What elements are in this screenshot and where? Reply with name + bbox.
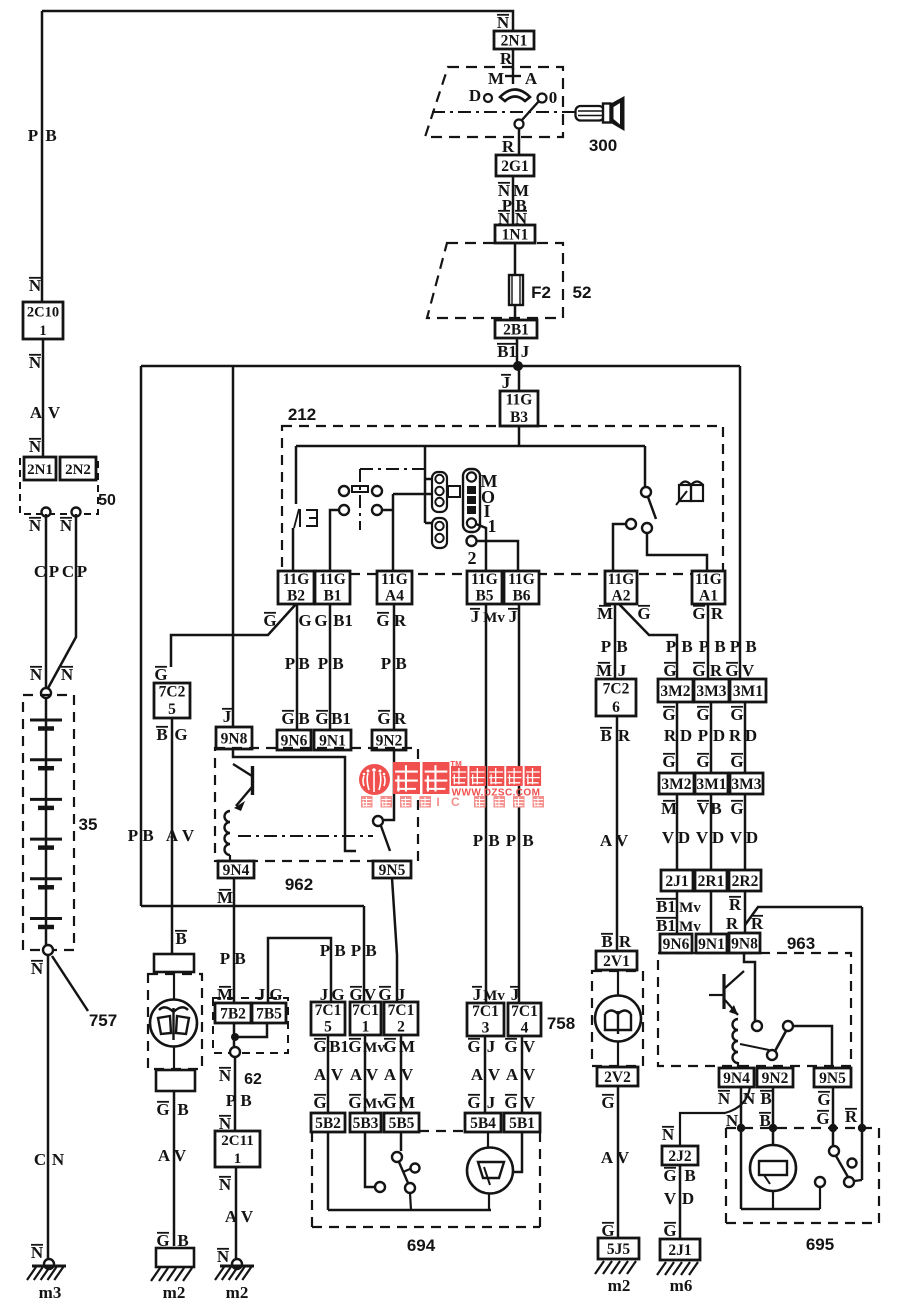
svg-text:Mv: Mv [363, 1040, 385, 1056]
svg-text:Mv: Mv [483, 988, 505, 1004]
svg-text:R: R [729, 726, 742, 745]
contact circle 962 [373, 816, 383, 826]
connector 2R2 [729, 870, 761, 891]
svg-text:B1: B1 [323, 587, 341, 604]
svg-text:J: J [511, 985, 520, 1004]
svg-text:9N2: 9N2 [762, 1070, 789, 1087]
relay 7C2-6 [596, 679, 636, 716]
svg-text:3M2: 3M2 [660, 683, 690, 700]
svg-text:N: N [219, 1175, 232, 1194]
svg-text:R: R [729, 895, 742, 914]
wire 2N2 slant to battery node [47, 514, 76, 690]
ignition switch crescent [500, 90, 530, 102]
unit 695 dashed box [726, 1127, 879, 1129]
connector 11G B2 [278, 571, 314, 604]
svg-text:V: V [697, 799, 710, 818]
svg-text:A: A [384, 1065, 397, 1084]
connector 9N4 (962) [218, 861, 254, 878]
wire lower contact to 11G B1 [330, 510, 339, 571]
svg-text:J: J [473, 985, 482, 1004]
wire 2N1 to battery node [45, 514, 48, 690]
svg-text:P: P [506, 831, 516, 850]
wire 9N8 into 963 [744, 953, 755, 1021]
blower motor circle [617, 970, 619, 996]
connector 5B4 [465, 1113, 501, 1132]
svg-text:N: N [29, 276, 42, 295]
svg-text:V: V [523, 1065, 536, 1084]
ignition key icon 300 [576, 106, 605, 121]
wire 9N5 to switch 695 [832, 1087, 835, 1146]
svg-text:J: J [618, 661, 627, 680]
svg-text:A: A [350, 1065, 363, 1084]
wire right switch drop [644, 446, 647, 487]
contact pair upper with bridge [339, 486, 349, 496]
connector 2R1 [695, 870, 727, 891]
svg-text:P: P [77, 562, 87, 581]
wiper motor M1 circle [173, 972, 175, 1000]
svg-text:B: B [177, 1100, 188, 1119]
relay contact circle A 963 [752, 1021, 762, 1031]
svg-text:P: P [730, 637, 740, 656]
wire 212 internal bus [296, 445, 645, 448]
connector 7B2 [215, 1003, 251, 1023]
connector 11G A4 [377, 571, 412, 604]
svg-text:V: V [241, 1207, 254, 1226]
svg-text:11G: 11G [508, 571, 535, 588]
svg-text:V: V [48, 403, 61, 422]
svg-text:R: R [726, 914, 739, 933]
svg-text:D: D [746, 828, 758, 847]
svg-text:N: N [29, 437, 42, 456]
relay coil 962 [225, 811, 230, 855]
svg-text:M: M [488, 69, 504, 88]
unit 962 dashed box [215, 748, 418, 861]
battery 35 dashed box [23, 695, 74, 950]
ignition contact 0 [538, 94, 547, 103]
svg-text:2J1: 2J1 [668, 1242, 691, 1259]
ignition switch dashed parallelogram [425, 67, 563, 137]
connector 5B2 [311, 1113, 345, 1132]
svg-text:G: G [504, 1093, 517, 1112]
connector 2N1 (ignition) [494, 31, 534, 49]
connector 7C1-3 [467, 1003, 504, 1036]
strip B lower circle [467, 536, 477, 546]
wires 3M upper to lower [676, 702, 679, 773]
svg-text:B: B [142, 826, 153, 845]
svg-text:R: R [845, 1107, 858, 1126]
connector 11G A1 [692, 571, 725, 604]
svg-text:G: G [348, 1093, 361, 1112]
svg-text:B: B [298, 709, 309, 728]
svg-text:D: D [712, 828, 724, 847]
rear washer pump [750, 1145, 796, 1191]
svg-text:9N4: 9N4 [223, 862, 250, 879]
svg-text:2B1: 2B1 [503, 322, 529, 339]
svg-text:9N5: 9N5 [819, 1070, 846, 1087]
wire 11G A4 to 9N2 [393, 604, 396, 730]
contact circle 695 common [815, 1177, 825, 1187]
wire 694 common [328, 1209, 491, 1212]
svg-text:V: V [730, 828, 743, 847]
svg-text:B1: B1 [656, 916, 676, 935]
connector 11G B1 [315, 571, 350, 604]
svg-text:G: G [817, 1090, 830, 1109]
wire 11G A1 to 3M3 [707, 604, 710, 679]
wire 9N2 to rear pump [772, 1087, 775, 1147]
blower icon [605, 1011, 631, 1035]
unit 62 dashed box [213, 998, 288, 1053]
wire 9N2 to 962 contact [384, 750, 394, 820]
ground m2 (5J5) [595, 1261, 604, 1274]
svg-text:V: V [523, 1093, 536, 1112]
svg-text:G: G [663, 1221, 676, 1240]
ground block m2 (motor) [156, 1248, 194, 1267]
svg-text:m2: m2 [226, 1283, 249, 1302]
transistor Q 963 [722, 974, 725, 1009]
wire bus to 11G B3 [518, 366, 521, 391]
wiper motor top cap [154, 954, 194, 972]
svg-text:300: 300 [589, 136, 617, 155]
svg-text:Mv: Mv [679, 900, 701, 916]
wire strip to 11G B5 [476, 524, 486, 571]
wire 11G B6 to 7C1-4 [518, 604, 521, 1003]
svg-text:7B5: 7B5 [256, 1006, 282, 1023]
svg-text:N: N [52, 1150, 65, 1169]
svg-text:M: M [661, 799, 677, 818]
svg-text:9N6: 9N6 [663, 936, 690, 953]
wire left battery feed vertical [41, 11, 44, 302]
wire 11G A2 to 7C2-6 [614, 604, 617, 679]
svg-text:G: G [467, 1093, 480, 1112]
svg-text:V: V [742, 661, 755, 680]
wire 62 to 2C11 [234, 1057, 237, 1131]
svg-text:7C1: 7C1 [315, 1002, 342, 1019]
wire 1N1 to 2B1 [514, 243, 517, 320]
svg-text:G: G [281, 709, 294, 728]
svg-text:G: G [696, 705, 709, 724]
svg-text:Mv: Mv [363, 1096, 385, 1112]
wire contact to 9N5 [793, 1026, 832, 1068]
front washer pump [487, 1132, 489, 1147]
svg-text:B: B [684, 1166, 695, 1185]
svg-text:m2: m2 [608, 1276, 631, 1295]
svg-text:2R2: 2R2 [732, 873, 759, 890]
wire battery to ground m3 [47, 955, 50, 1262]
connector 9N8 [216, 727, 252, 749]
svg-text:G: G [730, 705, 743, 724]
svg-text:1: 1 [488, 516, 497, 536]
ignition dash-dot axis [432, 111, 576, 113]
svg-text:J: J [257, 985, 266, 1004]
svg-text:N: N [61, 665, 74, 684]
switch 212 contacts [626, 519, 636, 529]
svg-text:2: 2 [468, 548, 477, 568]
svg-text:3M3: 3M3 [696, 683, 726, 700]
svg-text:D: D [682, 1189, 694, 1208]
svg-text:9N5: 9N5 [379, 862, 406, 879]
connector 2G1 [496, 155, 534, 176]
svg-text:A: A [600, 831, 613, 850]
svg-text:A: A [506, 1065, 519, 1084]
terminal circle 2N1 [42, 508, 51, 517]
svg-text:52: 52 [573, 283, 592, 302]
lamp symbol [299, 509, 301, 527]
connector 3M2 upper [658, 679, 693, 702]
svg-text:A: A [158, 1146, 171, 1165]
svg-text:212: 212 [288, 405, 316, 424]
wire 9N4-N into 695 [740, 1087, 743, 1209]
svg-text:G: G [376, 611, 389, 630]
svg-text:5: 5 [324, 1018, 332, 1035]
svg-text:V: V [182, 826, 195, 845]
svg-text:11G: 11G [283, 571, 310, 588]
svg-text:J: J [521, 342, 530, 361]
svg-text:B: B [234, 949, 245, 968]
svg-text:7C1: 7C1 [388, 1002, 415, 1019]
svg-text:P: P [698, 726, 708, 745]
coil link 963 [740, 1044, 769, 1050]
svg-text:11G: 11G [381, 571, 408, 588]
svg-text:N: N [60, 516, 73, 535]
svg-text:7C2: 7C2 [159, 684, 186, 701]
svg-text:P: P [318, 654, 328, 673]
svg-text:758: 758 [547, 1014, 575, 1033]
svg-text:I C: I C [436, 795, 463, 809]
svg-text:M: M [596, 661, 612, 680]
wiper motor bottom cap [156, 1070, 195, 1091]
svg-text:N: N [29, 353, 42, 372]
wire contact to 11G A1 [647, 533, 707, 571]
connector 50 dashed outline [20, 458, 98, 514]
svg-text:G: G [156, 1100, 169, 1119]
connector 9N1 [314, 730, 351, 750]
bus wire horizontal [141, 365, 740, 368]
svg-text:J: J [223, 707, 232, 726]
svg-text:m6: m6 [670, 1276, 693, 1295]
svg-text:V: V [523, 1037, 536, 1056]
svg-text:1: 1 [39, 323, 46, 339]
svg-text:V: V [331, 1065, 344, 1084]
svg-text:B: B [395, 654, 406, 673]
svg-text:2C11: 2C11 [221, 1133, 254, 1149]
svg-text:3M1: 3M1 [696, 776, 726, 793]
svg-text:A2: A2 [612, 587, 631, 604]
fuse F2 [509, 275, 523, 305]
svg-text:A: A [314, 1065, 327, 1084]
svg-text:J: J [502, 373, 511, 392]
connector 5B1 [504, 1113, 540, 1132]
svg-text:G: G [314, 611, 327, 630]
svg-text:5J5: 5J5 [607, 1241, 631, 1258]
svg-text:B: B [488, 831, 499, 850]
svg-text:11G: 11G [608, 571, 635, 588]
svg-text:D: D [680, 726, 692, 745]
connector 9N2 [372, 730, 406, 750]
svg-text:R: R [664, 726, 677, 745]
node battery top [41, 688, 51, 698]
wire 9N5 to 7C1-2 [392, 878, 397, 1002]
connector 5B3 [350, 1113, 381, 1132]
connector 2V1 [596, 951, 637, 970]
wires 7C1 to 5B row [327, 1035, 330, 1113]
connector 7C1-5 [311, 1002, 345, 1035]
wire 7C2-5 to wiper motor [171, 718, 174, 954]
svg-text:R: R [394, 611, 407, 630]
connector 3M2 lower [659, 773, 694, 794]
watermark logo [359, 764, 390, 795]
svg-text:R: R [710, 661, 723, 680]
svg-text:35: 35 [79, 815, 98, 834]
svg-text:A: A [225, 1207, 238, 1226]
connector 2B1 [495, 320, 537, 338]
svg-text:6: 6 [612, 699, 620, 716]
svg-text:B: B [45, 126, 56, 145]
svg-text:9N8: 9N8 [221, 731, 248, 748]
svg-text:V: V [664, 1189, 677, 1208]
svg-text:P: P [601, 637, 611, 656]
svg-text:N: N [31, 959, 44, 978]
svg-text:1: 1 [362, 1018, 370, 1035]
wiper icon [158, 1007, 189, 1040]
blade 962 [381, 826, 390, 851]
svg-text:R: R [394, 709, 407, 728]
svg-text:P: P [473, 831, 483, 850]
svg-text:G: G [298, 611, 311, 630]
svg-text:G: G [696, 752, 709, 771]
svg-text:P: P [666, 637, 676, 656]
unit 963 dashed box [658, 953, 851, 1066]
svg-text:3M1: 3M1 [733, 683, 763, 700]
svg-text:M: M [597, 604, 613, 623]
svg-text:G: G [663, 1166, 676, 1185]
svg-text:2N1: 2N1 [501, 33, 528, 50]
wire motor to ground [173, 1091, 176, 1246]
wire 11G B5 to 7C1-3 [485, 604, 488, 1003]
svg-text:P: P [699, 637, 709, 656]
svg-text:G: G [383, 1037, 396, 1056]
svg-text:N: N [662, 1125, 675, 1144]
svg-text:G: G [692, 604, 705, 623]
connector 7B5 [252, 1003, 286, 1023]
svg-text:P: P [285, 654, 295, 673]
svg-text:N: N [219, 1066, 232, 1085]
svg-text:5B4: 5B4 [470, 1115, 496, 1132]
svg-text:Mv: Mv [679, 919, 701, 935]
connector 9N1 (963) [696, 934, 727, 953]
svg-text:m2: m2 [163, 1283, 186, 1302]
wire R branch to rear bus [745, 907, 862, 925]
svg-text:P: P [128, 826, 138, 845]
svg-text:9N8: 9N8 [731, 936, 758, 953]
svg-text:3M3: 3M3 [731, 776, 761, 793]
svg-text:G: G [377, 709, 390, 728]
connector 11G B5 [467, 571, 502, 604]
connector 3M1 lower [695, 773, 728, 794]
connector 11G A2 [605, 571, 637, 604]
ground m2 (2C11) [232, 1259, 242, 1269]
svg-text:C: C [62, 562, 74, 581]
svg-text:D: D [713, 726, 725, 745]
svg-text:963: 963 [787, 934, 815, 953]
wire top feed from battery column to ignition switch [42, 11, 513, 31]
svg-text:2J2: 2J2 [668, 1148, 692, 1165]
svg-text:B: B [240, 1091, 251, 1110]
svg-text:B: B [681, 637, 692, 656]
wire 11G B2 second pin down to 9N6 [296, 604, 299, 730]
connector 9N6 (963) [660, 934, 692, 953]
svg-text:N: N [718, 1089, 731, 1108]
wire J from bus to 9N8 [232, 366, 235, 727]
node circle 62 [230, 1047, 240, 1057]
svg-text:7C2: 7C2 [603, 680, 630, 697]
svg-text:2R1: 2R1 [698, 873, 725, 890]
svg-text:9N4: 9N4 [723, 1070, 750, 1087]
wire 2G1 to 1N1 [512, 176, 515, 225]
svg-text:0: 0 [549, 88, 558, 107]
unit 212 dashed box [282, 426, 723, 574]
wire 212 feed drop to strips [424, 446, 427, 523]
svg-text:B: B [156, 725, 167, 744]
svg-text:962: 962 [285, 875, 313, 894]
svg-text:7B2: 7B2 [220, 1006, 246, 1023]
connector 2V2 [597, 1067, 638, 1086]
connector 2N1 (left) [24, 457, 56, 480]
svg-text:B: B [760, 1089, 771, 1108]
svg-text:B: B [601, 932, 612, 951]
leader line to 757 [52, 956, 88, 1011]
svg-text:1N1: 1N1 [502, 227, 529, 244]
svg-text:G: G [313, 1037, 326, 1056]
svg-text:V: V [401, 1065, 414, 1084]
wire left drop [295, 446, 298, 504]
svg-text:5: 5 [168, 701, 176, 718]
svg-text:J: J [471, 607, 480, 626]
crossbar wire PB [140, 366, 143, 906]
svg-text:2N1: 2N1 [27, 462, 53, 478]
svg-text:A1: A1 [699, 587, 718, 604]
switch 212 right blade [648, 497, 656, 519]
svg-text:G: G [269, 985, 282, 1004]
svg-text:G: G [637, 604, 650, 623]
svg-text:B: B [714, 637, 725, 656]
connector 9N5 (963) [814, 1068, 851, 1087]
wires to 9N row (963) [676, 891, 679, 934]
svg-text:C: C [34, 562, 46, 581]
svg-text:V: V [366, 1065, 379, 1084]
svg-text:R: R [711, 604, 724, 623]
svg-text:695: 695 [806, 1235, 834, 1254]
terminal circle 2N2 [72, 508, 81, 517]
svg-text:J: J [509, 607, 518, 626]
wire lamp to 11G B2 [292, 528, 295, 571]
svg-text:62: 62 [244, 1071, 262, 1088]
wire lower contact to A4 riser [382, 509, 393, 512]
svg-text:B: B [600, 726, 611, 745]
connector 9N5 (962) [373, 861, 411, 878]
svg-text:3: 3 [482, 1019, 490, 1036]
svg-text:N: N [29, 516, 42, 535]
svg-text:Mv: Mv [483, 610, 505, 626]
switch 212 right pivot [641, 487, 651, 497]
svg-text:V: V [696, 828, 709, 847]
svg-text:G: G [467, 1037, 480, 1056]
svg-text:B1: B1 [331, 709, 351, 728]
wire 7C2-6 to 2V1 [616, 716, 619, 951]
dash-dot link 962 [238, 835, 373, 837]
connector 7C1-1 [350, 1002, 381, 1035]
wire 7B5 up-over to 7C1-5 [268, 938, 331, 1003]
svg-text:A: A [525, 69, 538, 88]
